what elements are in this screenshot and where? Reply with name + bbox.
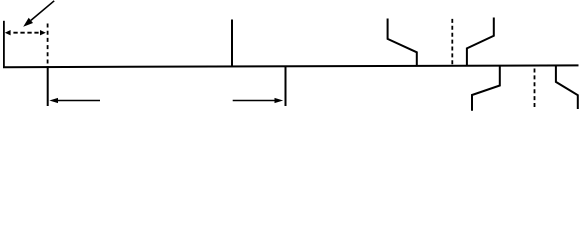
gap dimension right arrowhead [40,30,46,35]
dashed vertical guide below line [534,69,536,110]
span dimension right arrow shaft [233,100,277,102]
pointer arrowhead [23,18,33,27]
gap dimension left arrowhead [5,30,11,35]
span dimension left arrow shaft [56,100,100,102]
second mark below line [285,66,287,106]
pointer arrow shaft [31,1,54,21]
string / main horizontal line [3,65,579,67]
break jog lower-right [556,66,578,110]
break jog lower-left [472,66,500,111]
gap dimension dashed line [13,32,38,34]
wall / left end vertical [3,21,5,68]
break jog upper-right [467,18,494,66]
first mark below line [47,66,49,106]
span dimension left arrowhead [49,98,58,103]
dashed vertical guide above line [451,19,453,66]
dashed vertical guide at first mark [47,24,49,67]
tick above line [231,20,233,67]
span dimension right arrowhead [275,98,284,103]
break jog upper-left [388,19,417,67]
